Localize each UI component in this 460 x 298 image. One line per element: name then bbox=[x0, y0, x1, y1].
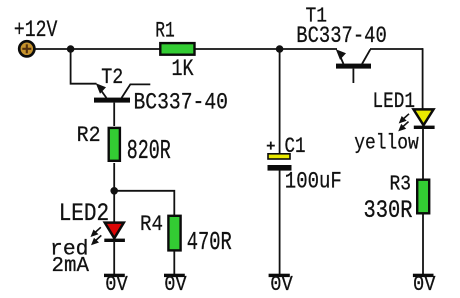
svg-text:LED2: LED2 bbox=[59, 200, 110, 228]
LED1 emission arrow upper bbox=[399, 114, 409, 124]
T1 base lead stub bbox=[352, 69, 354, 83]
wire R4 to ground bbox=[173, 251, 175, 275]
T1 emitter line bbox=[339, 54, 344, 65]
svg-text:C1: C1 bbox=[285, 134, 306, 159]
capacitor C1 bbox=[267, 142, 292, 171]
wire C1 to ground bbox=[279, 170, 281, 275]
ground under R3 bbox=[413, 274, 434, 277]
svg-text:1K: 1K bbox=[172, 56, 195, 82]
LED2 red bbox=[104, 223, 125, 242]
svg-text:0V: 0V bbox=[105, 274, 128, 297]
resistor R3 bbox=[417, 180, 429, 214]
C1 negative plate bbox=[268, 165, 292, 171]
T1 collector line bbox=[362, 49, 370, 64]
ground under LED2 bbox=[104, 274, 125, 277]
junction dot below R2 bbox=[110, 187, 118, 195]
resistor R4 bbox=[168, 216, 180, 251]
ground under R4 bbox=[164, 274, 185, 277]
svg-text:100uF: 100uF bbox=[285, 168, 342, 194]
svg-text:BC337-40: BC337-40 bbox=[133, 88, 228, 115]
svg-text:330R: 330R bbox=[364, 197, 413, 225]
resistor R1 bbox=[160, 43, 194, 55]
svg-text:0V: 0V bbox=[413, 274, 436, 297]
wire junction to R4 branch bbox=[114, 191, 174, 216]
LED1 yellow bbox=[414, 109, 435, 129]
LED1 emission arrow lower bbox=[398, 122, 408, 132]
T2 emitter line bbox=[99, 88, 107, 99]
svg-text:820R: 820R bbox=[127, 137, 171, 167]
svg-text:0V: 0V bbox=[270, 274, 293, 297]
T2 emitter arrowhead bbox=[96, 83, 106, 94]
svg-text:LED1: LED1 bbox=[373, 90, 416, 115]
svg-text:470R: 470R bbox=[187, 228, 232, 258]
junction dot C1 branch bbox=[276, 45, 284, 53]
wire from +12V junction down to T2 emitter bbox=[71, 49, 97, 84]
svg-text:0V: 0V bbox=[164, 274, 187, 297]
svg-text:+12V: +12V bbox=[14, 17, 57, 43]
ground under C1 bbox=[269, 274, 290, 277]
wire R3 to ground bbox=[422, 214, 424, 276]
svg-text:R1: R1 bbox=[155, 19, 175, 44]
wire +12V rail from terminal to T1 emitter bbox=[34, 48, 337, 50]
svg-text:R3: R3 bbox=[390, 174, 412, 197]
T2 base lead wire bbox=[113, 103, 115, 126]
svg-text:R2: R2 bbox=[77, 124, 101, 149]
wire LED2 to ground bbox=[113, 241, 115, 275]
resistor R2 bbox=[109, 128, 120, 161]
junction dot at +12V rail bbox=[67, 45, 75, 53]
svg-text:T2: T2 bbox=[101, 66, 123, 91]
LED2 emission arrow lower bbox=[91, 235, 101, 245]
svg-text:R4: R4 bbox=[140, 213, 163, 238]
C1 plus polarity mark bbox=[267, 145, 275, 147]
svg-text:2mA: 2mA bbox=[52, 255, 90, 278]
wire LED1 to R3 bbox=[422, 128, 424, 180]
svg-text:yellow: yellow bbox=[354, 133, 419, 156]
wire right branch down to LED1 bbox=[422, 48, 424, 110]
svg-text:BC337-40: BC337-40 bbox=[296, 22, 387, 49]
T1 base bar bbox=[336, 64, 371, 69]
LED2 emission arrow upper bbox=[91, 227, 101, 237]
wire R2 bottom to junction bbox=[113, 163, 115, 191]
wire junction down to C1 bbox=[279, 49, 281, 154]
T2 base bar bbox=[94, 98, 130, 103]
terminal +12V bbox=[19, 41, 34, 56]
T2 collector line bbox=[122, 84, 151, 98]
wire junction down to LED2 bbox=[113, 191, 115, 223]
wire T1 collector to top-right corner bbox=[370, 48, 423, 50]
transistor T2 BC337-40 bbox=[94, 83, 150, 126]
transistor T1 BC337-40 bbox=[336, 49, 371, 83]
T1 emitter arrowhead bbox=[336, 49, 346, 60]
C1 positive plate bbox=[268, 154, 290, 159]
